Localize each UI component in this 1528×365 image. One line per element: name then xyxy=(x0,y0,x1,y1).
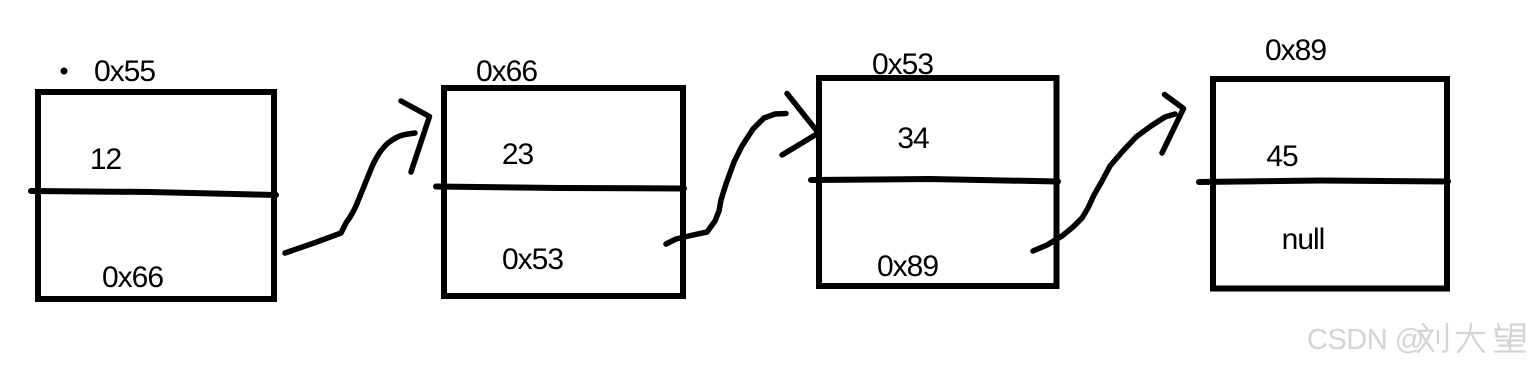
svg-text:0x53: 0x53 xyxy=(872,48,933,81)
svg-text:0x66: 0x66 xyxy=(476,55,537,88)
svg-text:23: 23 xyxy=(502,138,534,171)
svg-text:45: 45 xyxy=(1266,140,1298,173)
svg-text:0x89: 0x89 xyxy=(877,250,938,283)
svg-text:null: null xyxy=(1282,223,1325,256)
svg-text:0x55: 0x55 xyxy=(94,55,155,88)
svg-text:0x66: 0x66 xyxy=(102,261,163,294)
svg-text:0x53: 0x53 xyxy=(502,243,563,276)
svg-text:34: 34 xyxy=(897,122,929,155)
svg-text:0x89: 0x89 xyxy=(1265,34,1326,67)
svg-text:CSDN @: CSDN @ xyxy=(1307,324,1424,356)
svg-text:12: 12 xyxy=(90,143,122,176)
